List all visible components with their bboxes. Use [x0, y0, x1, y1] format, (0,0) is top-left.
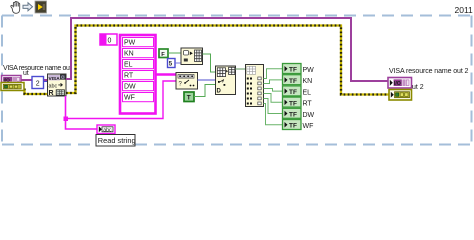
boolean indicator DW	[283, 108, 302, 118]
svg-text:abc: abc	[49, 83, 58, 89]
svg-text:PW: PW	[303, 67, 315, 74]
spreadsheet string to array A	[181, 48, 203, 65]
wire error control to VISA Read	[25, 89, 49, 95]
equal comparison C	[216, 66, 236, 95]
svg-text:WF: WF	[303, 123, 314, 130]
svg-text:TF: TF	[289, 78, 297, 85]
boolean indicator KN	[283, 75, 302, 85]
boolean indicator WF	[283, 120, 302, 130]
wire T to C	[194, 85, 216, 97]
search 1D array B	[176, 73, 198, 90]
svg-text:2011: 2011	[455, 5, 474, 15]
true constant T	[184, 92, 194, 102]
svg-text:VISA resource name out 2: VISA resource name out 2	[389, 68, 469, 75]
svg-text:DW: DW	[303, 112, 315, 119]
read string indicator	[97, 125, 115, 134]
boolean indicator PW	[283, 64, 302, 74]
svg-text:abc: abc	[103, 127, 112, 133]
wire VISA resource out loop	[66, 18, 388, 81]
svg-text:ut: ut	[23, 70, 29, 77]
boolean indicator RT	[283, 97, 302, 107]
svg-text:KN: KN	[124, 51, 134, 58]
svg-text:TF: TF	[289, 123, 297, 130]
svg-text:R: R	[49, 90, 54, 97]
svg-text:VISA resource name out: VISA resource name out	[3, 65, 72, 72]
svg-text:VISA: VISA	[49, 76, 61, 82]
svg-text:RT: RT	[303, 101, 313, 108]
toolbar pan tool	[11, 2, 20, 14]
svg-text:TF: TF	[289, 112, 297, 119]
wires D to boolean indicators	[264, 69, 283, 125]
wire error out loop	[66, 26, 389, 95]
svg-text:I/O: I/O	[394, 81, 401, 87]
svg-text:TF: TF	[289, 89, 297, 96]
wire read buffer string	[64, 81, 177, 129]
VISA resource name out control	[2, 76, 22, 84]
svg-text:Read string: Read string	[98, 136, 136, 145]
svg-text:WF: WF	[124, 95, 135, 102]
svg-text:EL: EL	[303, 89, 312, 96]
VISA Read U1	[48, 74, 67, 97]
svg-text:0: 0	[108, 38, 112, 45]
wire visa control to VISA Read	[21, 79, 48, 81]
svg-text:F: F	[161, 52, 165, 58]
error out 2 indicator	[389, 90, 412, 101]
svg-text:D: D	[217, 89, 222, 95]
svg-text:TF: TF	[289, 100, 297, 107]
constant 2	[32, 77, 48, 89]
svg-text:EL: EL	[124, 62, 133, 69]
selection marquee	[2, 16, 472, 145]
svg-text:2: 2	[36, 80, 40, 87]
wire C to D	[236, 68, 246, 70]
error out control	[1, 83, 24, 91]
svg-text:T: T	[187, 94, 191, 101]
label Read string	[96, 135, 136, 147]
svg-text:PW: PW	[124, 40, 136, 47]
toolbar run button	[35, 1, 47, 13]
constant 5	[168, 59, 182, 68]
constant F	[159, 49, 181, 58]
svg-text:DW: DW	[124, 84, 136, 91]
svg-text:KN: KN	[303, 78, 313, 85]
svg-text:TF: TF	[289, 67, 297, 74]
wire index B to C	[198, 79, 216, 81]
string array constant	[100, 34, 156, 114]
boolean indicator EL	[283, 86, 302, 96]
VISA resource name out 2 indicator	[388, 78, 412, 89]
index array D	[246, 65, 264, 107]
toolbar wiring arrow tool	[23, 3, 33, 11]
wire A to C	[203, 54, 216, 72]
wire string array to search	[156, 73, 176, 75]
svg-text:ut 2: ut 2	[412, 84, 424, 91]
svg-text:RT: RT	[124, 73, 134, 80]
